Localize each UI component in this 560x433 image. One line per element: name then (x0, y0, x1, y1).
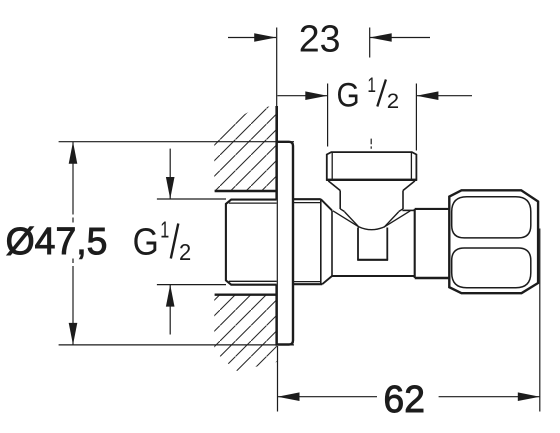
text G1/2 middle (133, 217, 192, 265)
male thread (226, 200, 277, 285)
dim dia47.5 ext bottom (59, 344, 294, 346)
centerline tick (370, 139, 372, 149)
thread minor line top (229, 202, 277, 204)
collar chamfer right (399, 209, 403, 212)
wall hole top edge (215, 190, 277, 192)
dim dia47.5 vertical line (72, 142, 74, 215)
thread dim arrow down (169, 149, 171, 199)
dim 62 line left (278, 396, 378, 398)
dim 23 line right (370, 37, 430, 39)
dim 23 arrow left (254, 33, 276, 42)
wall hatch upper (214, 105, 276, 190)
neck bottom (357, 259, 388, 261)
dim 62 arrow left (278, 392, 300, 401)
lower cone right outer (384, 212, 399, 227)
stem top line (415, 208, 450, 210)
dim dia47.5 arrow up (69, 142, 78, 164)
upper cone left (328, 181, 340, 191)
text G1/2 top (337, 74, 400, 114)
lower cone left outer (345, 212, 360, 227)
thread minor line bottom (229, 280, 277, 282)
wall hatch lower (214, 296, 276, 372)
thread dim ext top (157, 198, 226, 200)
svg-text:G: G (133, 221, 159, 263)
dim 23 ext right (369, 28, 371, 58)
svg-text:Ø47,5: Ø47,5 (6, 221, 108, 263)
collar right side (402, 191, 404, 210)
body mid bottom line (332, 275, 414, 277)
neck right side (386, 228, 388, 260)
dim 23 ext left (276, 28, 278, 108)
svg-text:62: 62 (384, 379, 425, 421)
dim G1/2 ext left (327, 84, 329, 147)
neck left side (357, 228, 359, 260)
hex cap bottom thick line (326, 179, 417, 181)
knob lower pillow (452, 248, 531, 288)
body right step (414, 209, 416, 278)
svg-text:1: 1 (367, 74, 376, 97)
thread dim arrow up (169, 285, 171, 335)
dim 62 line right (439, 396, 540, 398)
body mid section left face (331, 210, 333, 276)
thread dim ext bottom (157, 284, 226, 286)
dim 62 arrow right (518, 392, 540, 401)
dim G1/2 top line right (416, 95, 472, 97)
hex cap outline (327, 152, 417, 180)
lower cone right inner (385, 211, 410, 227)
dim dia47.5 arrow down (69, 323, 78, 345)
body large section top lines (293, 198, 321, 200)
body large section end face (320, 199, 322, 284)
wall hole bottom edge (215, 294, 277, 296)
escutcheon plate (277, 142, 293, 345)
dim dia47.5 ext top (59, 141, 294, 143)
dim 23 line left (228, 37, 276, 39)
stem bottom line (415, 277, 450, 279)
dim 62 ext left (277, 346, 279, 412)
svg-text:2: 2 (387, 90, 399, 113)
dim G1/2 top arrow left (305, 91, 327, 100)
knob upper pillow (452, 197, 531, 238)
lower cone left inner (333, 211, 358, 227)
fraction slash middle (171, 224, 179, 259)
svg-text:2: 2 (179, 239, 191, 265)
svg-text:G: G (337, 76, 360, 114)
dim 62 ext right (539, 229, 541, 412)
body bottom transition diagonal (322, 276, 332, 284)
hex cap inner flats (331, 153, 333, 180)
collar left side (339, 191, 341, 210)
fraction slash top (377, 80, 386, 107)
body top transition diagonal (321, 199, 332, 210)
svg-text:23: 23 (299, 18, 341, 60)
knob outline (449, 190, 538, 293)
upper cone right (403, 181, 415, 191)
dim G1/2 top line left (277, 95, 327, 97)
svg-text:1: 1 (160, 217, 169, 243)
collar chamfer left (340, 209, 344, 212)
wall face line (275, 106, 278, 345)
dim G1/2 top arrow right (416, 91, 438, 100)
throat arc (358, 227, 384, 230)
body large section bottom lines (293, 283, 322, 285)
dim 23 arrow right (370, 33, 392, 42)
dim G1/2 ext right (415, 84, 417, 151)
body mid top line right (402, 209, 414, 211)
